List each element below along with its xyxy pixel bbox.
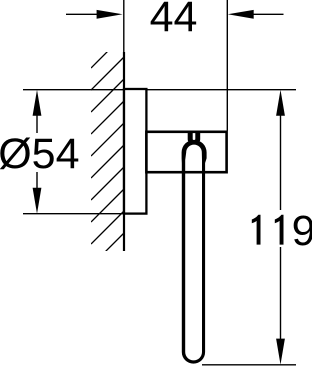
svg-text:44: 44 [150,0,198,41]
extension line of 119 (top, at plate top level) [146,89,296,91]
dimension line 119 (vertical, broken for text) [280,115,282,211]
svg-text:9: 9 [292,207,312,255]
dimension line Ø54 (vertical, broken for text) [36,115,38,134]
extension line of 119 (bottom) [202,364,296,366]
holder body [146,132,226,172]
wire: extension line of 44 (left, above wall) [123,0,125,52]
extension line of 44 (right) [226,0,228,131]
extension line of Ø54 (bottom) [23,213,123,215]
dimension text 119 [252,207,316,255]
dimension line 44 (left segment + arrow) [66,13,98,15]
wall plate (escutcheon) [124,89,146,214]
svg-text:Ø54: Ø54 [0,130,79,178]
wall [123,52,125,251]
pivot pin [188,131,201,144]
dimension line 44 (right segment + arrow) [254,13,284,15]
wall hatching [91,35,124,266]
holder ring (loop) [182,140,207,364]
extension line of Ø54 (top) [23,89,123,91]
